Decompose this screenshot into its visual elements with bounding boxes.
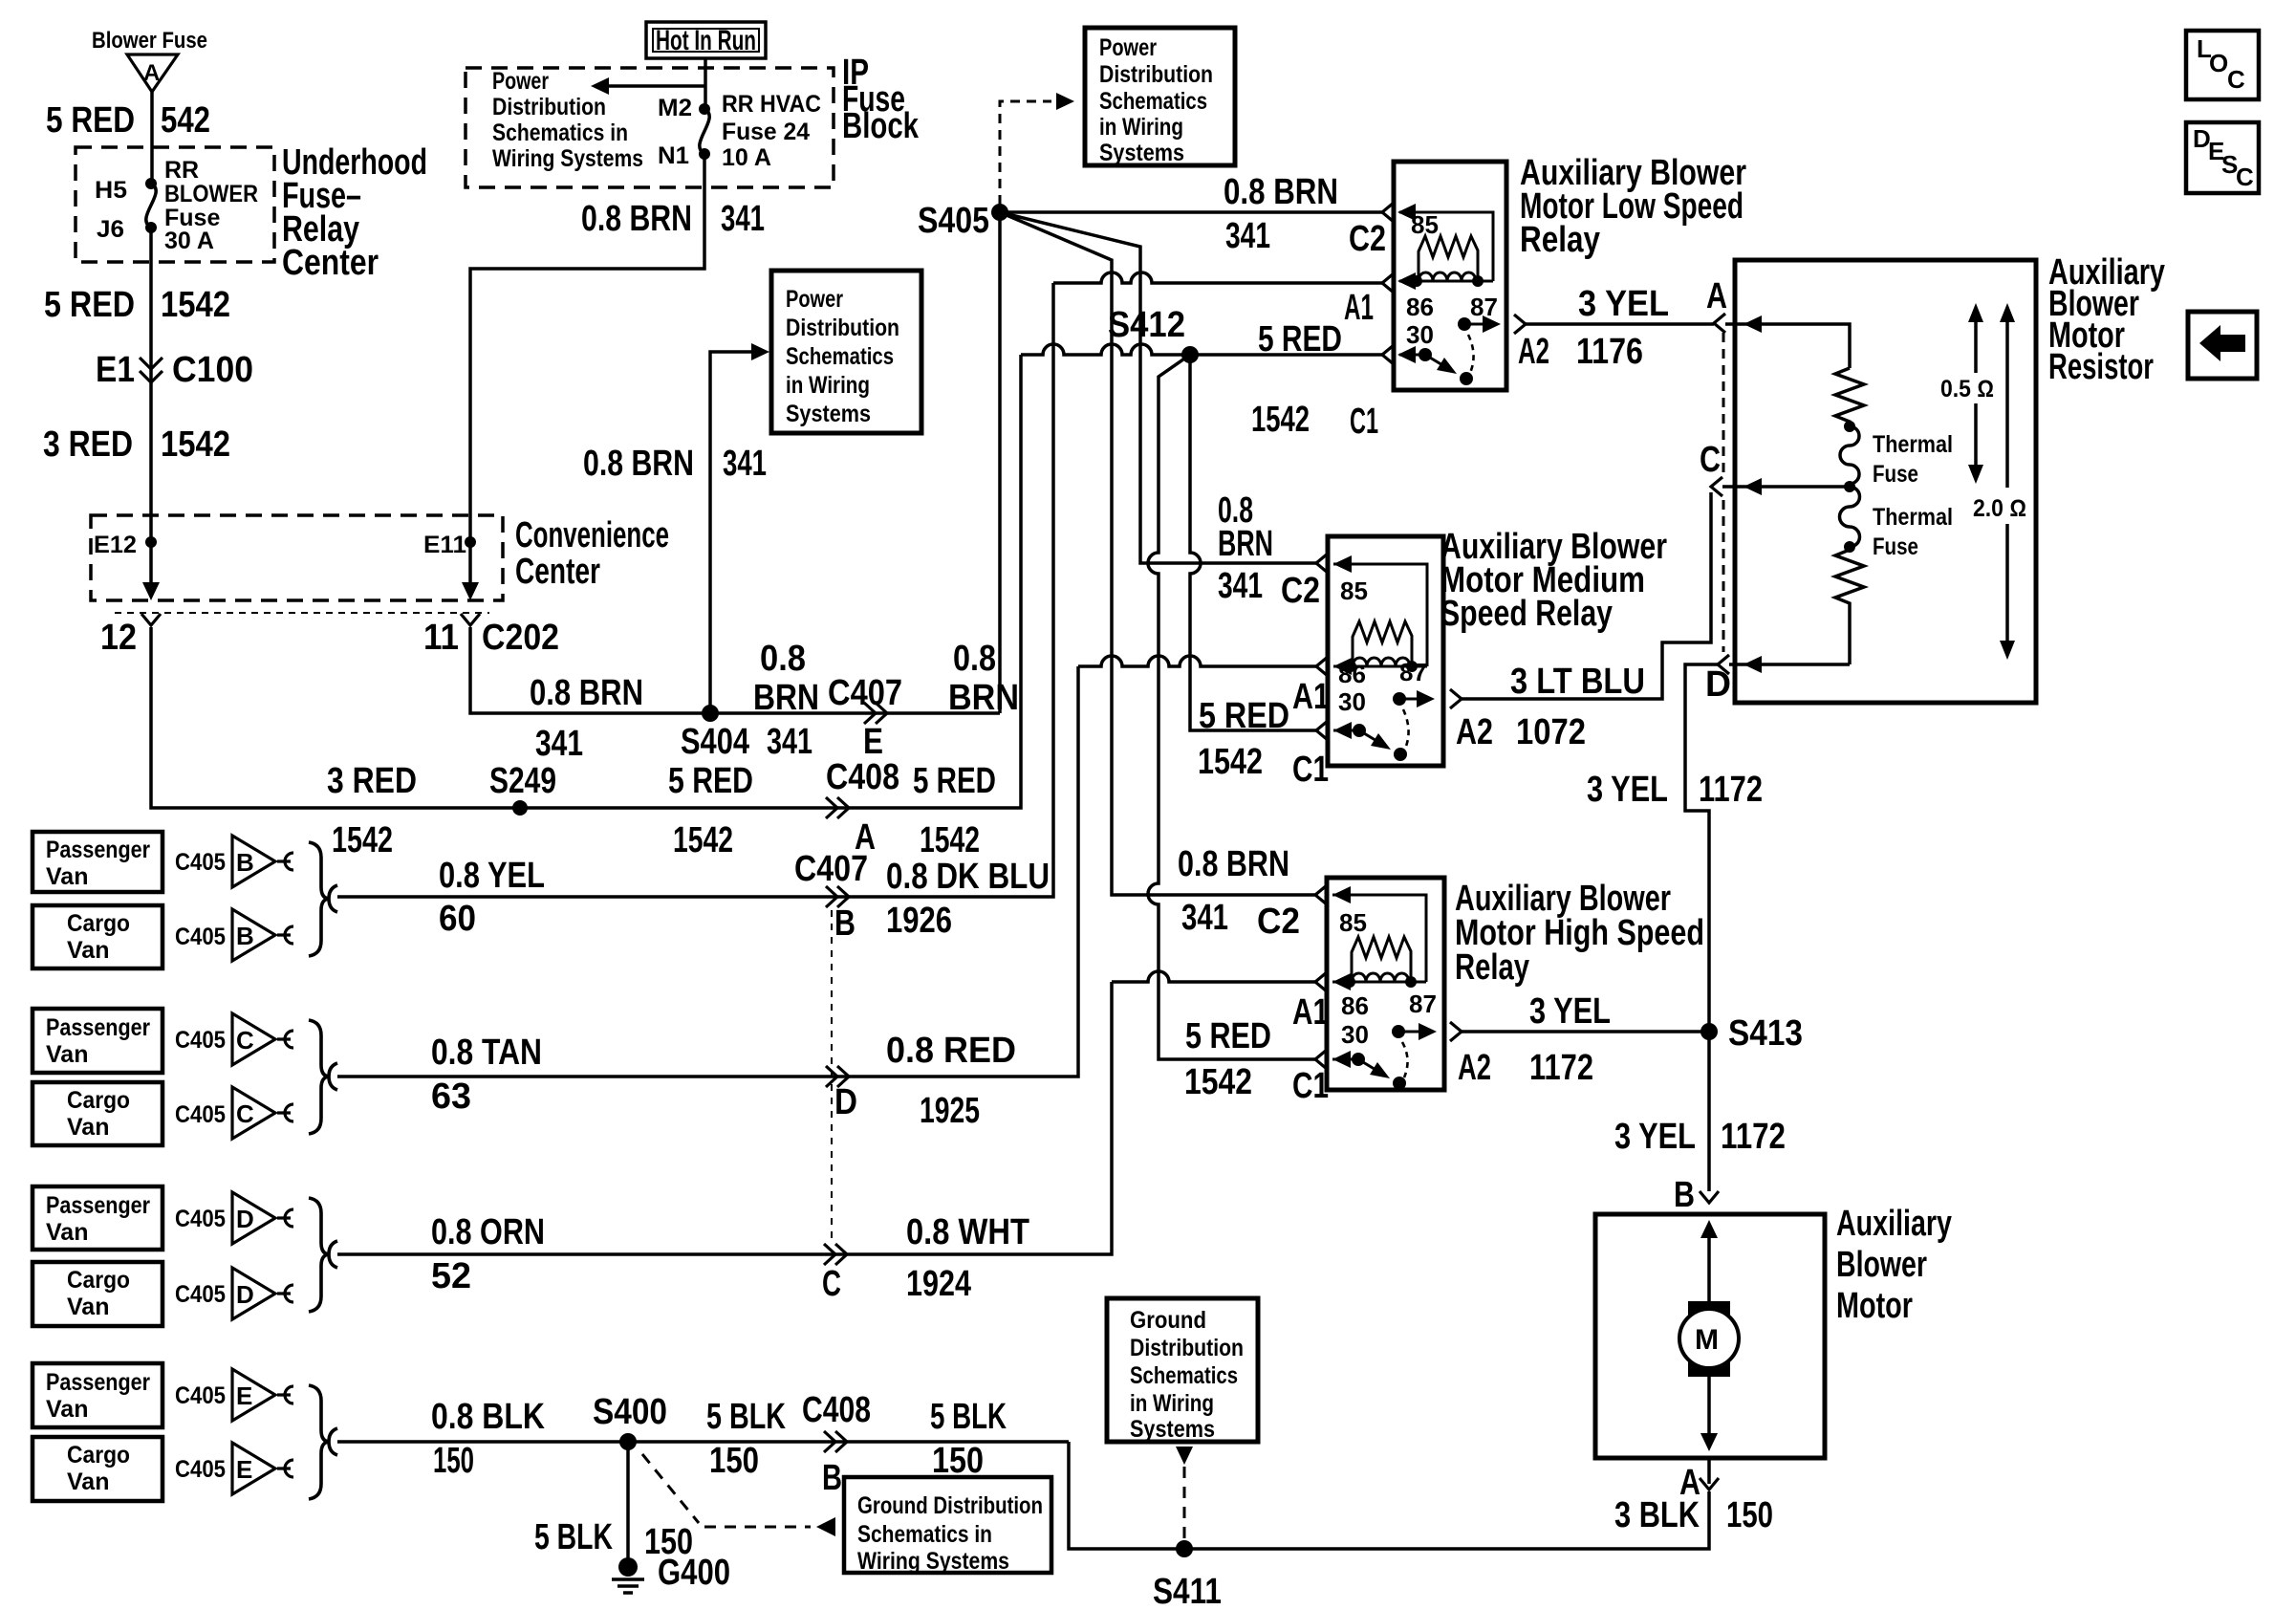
svg-text:Systems: Systems — [1130, 1416, 1215, 1443]
svg-text:in Wiring: in Wiring — [1099, 114, 1183, 141]
svg-text:C: C — [2227, 65, 2245, 94]
svg-text:S404: S404 — [681, 722, 749, 762]
svg-text:1542: 1542 — [1184, 1062, 1252, 1102]
svg-text:BRN: BRN — [948, 678, 1019, 718]
svg-text:Systems: Systems — [786, 401, 871, 427]
svg-text:C405: C405 — [175, 1101, 226, 1128]
svg-text:D: D — [236, 1280, 254, 1309]
svg-text:C: C — [822, 1264, 841, 1304]
svg-text:Distribution: Distribution — [786, 315, 899, 341]
svg-text:341: 341 — [721, 199, 765, 239]
svg-text:C405: C405 — [175, 1382, 226, 1409]
svg-text:Convenience: Convenience — [515, 515, 669, 555]
svg-text:542: 542 — [161, 100, 210, 141]
svg-text:Ground Distribution: Ground Distribution — [857, 1492, 1043, 1519]
svg-text:B: B — [822, 1458, 842, 1498]
svg-text:1542: 1542 — [1198, 742, 1263, 782]
svg-text:0.8 BRN: 0.8 BRN — [583, 444, 694, 484]
svg-text:341: 341 — [1181, 898, 1228, 938]
svg-text:Van: Van — [67, 937, 109, 964]
svg-text:0.5 Ω: 0.5 Ω — [1940, 376, 1994, 402]
svg-text:Van: Van — [67, 1294, 109, 1320]
svg-text:5 RED: 5 RED — [44, 285, 135, 325]
svg-text:341: 341 — [1225, 216, 1270, 256]
svg-text:1926: 1926 — [886, 901, 952, 941]
svg-text:30: 30 — [1341, 1020, 1369, 1049]
svg-text:0.8 DK BLU: 0.8 DK BLU — [886, 857, 1050, 897]
svg-text:Distribution: Distribution — [1130, 1335, 1244, 1361]
svg-text:E: E — [863, 722, 883, 762]
svg-text:B: B — [1674, 1175, 1695, 1215]
svg-text:87: 87 — [1409, 990, 1437, 1018]
svg-text:3 YEL: 3 YEL — [1529, 991, 1611, 1032]
svg-text:RR HVAC: RR HVAC — [722, 91, 821, 118]
svg-text:87: 87 — [1470, 293, 1498, 321]
svg-text:1542: 1542 — [920, 820, 980, 860]
svg-text:5 RED: 5 RED — [1185, 1016, 1271, 1056]
svg-text:S412: S412 — [1108, 305, 1185, 345]
svg-text:BRN: BRN — [753, 678, 819, 718]
svg-text:Speed Relay: Speed Relay — [1440, 594, 1613, 634]
svg-text:0.8 BRN: 0.8 BRN — [581, 199, 692, 239]
svg-text:1176: 1176 — [1576, 332, 1643, 372]
svg-text:A1: A1 — [1292, 992, 1329, 1033]
svg-text:E12: E12 — [94, 532, 137, 558]
svg-text:D: D — [834, 1082, 857, 1122]
svg-text:3 BLK: 3 BLK — [1614, 1495, 1700, 1535]
svg-text:C1: C1 — [1350, 402, 1378, 442]
svg-text:1172: 1172 — [1721, 1117, 1786, 1157]
svg-text:3 RED: 3 RED — [43, 424, 133, 465]
svg-text:Auxiliary: Auxiliary — [1836, 1204, 1952, 1244]
svg-text:5 BLK: 5 BLK — [534, 1517, 613, 1557]
svg-text:Center: Center — [515, 552, 600, 592]
svg-text:5 RED: 5 RED — [46, 100, 135, 141]
svg-text:Cargo: Cargo — [67, 910, 130, 937]
svg-text:30: 30 — [1338, 687, 1366, 716]
svg-text:3 YEL: 3 YEL — [1587, 770, 1668, 810]
svg-text:Relay: Relay — [1455, 947, 1529, 988]
svg-text:3 YEL: 3 YEL — [1614, 1117, 1696, 1157]
svg-text:63: 63 — [431, 1077, 471, 1117]
svg-text:86: 86 — [1406, 293, 1434, 321]
svg-text:85: 85 — [1411, 210, 1439, 239]
svg-text:Cargo: Cargo — [67, 1267, 130, 1294]
svg-text:1542: 1542 — [161, 285, 230, 325]
svg-text:Systems: Systems — [1099, 140, 1184, 166]
svg-text:C405: C405 — [175, 1456, 226, 1483]
svg-text:Schematics in: Schematics in — [492, 120, 628, 146]
svg-text:E1: E1 — [96, 350, 135, 390]
svg-text:S400: S400 — [593, 1392, 667, 1432]
svg-text:5 RED: 5 RED — [668, 761, 753, 801]
svg-text:0.8 BRN: 0.8 BRN — [1224, 172, 1338, 212]
svg-text:M2: M2 — [658, 95, 692, 121]
svg-text:O: O — [2209, 49, 2228, 77]
svg-text:30: 30 — [1406, 320, 1434, 349]
svg-text:86: 86 — [1338, 660, 1366, 688]
svg-text:C202: C202 — [482, 618, 559, 658]
svg-text:A: A — [143, 60, 160, 86]
svg-text:1924: 1924 — [906, 1264, 971, 1304]
svg-text:Fuse: Fuse — [1873, 533, 1918, 560]
svg-text:Van: Van — [46, 863, 88, 890]
svg-text:A1: A1 — [1292, 677, 1330, 717]
svg-text:341: 341 — [767, 722, 812, 762]
svg-text:E: E — [236, 1455, 252, 1484]
svg-text:C405: C405 — [175, 924, 226, 950]
svg-text:in Wiring: in Wiring — [1130, 1390, 1214, 1417]
svg-text:C100: C100 — [172, 350, 253, 390]
svg-text:5 BLK: 5 BLK — [706, 1397, 786, 1437]
svg-text:in Wiring: in Wiring — [786, 372, 870, 399]
svg-text:1542: 1542 — [332, 820, 393, 860]
svg-text:Resistor: Resistor — [2048, 347, 2154, 387]
svg-text:0.8 WHT: 0.8 WHT — [906, 1212, 1029, 1252]
svg-text:30 A: 30 A — [164, 228, 214, 254]
svg-text:10 A: 10 A — [722, 144, 771, 171]
svg-text:5 RED: 5 RED — [1258, 319, 1342, 359]
svg-text:Block: Block — [842, 106, 920, 146]
svg-text:C405: C405 — [175, 1281, 226, 1308]
svg-text:341: 341 — [723, 444, 767, 484]
svg-text:Cargo: Cargo — [67, 1442, 130, 1469]
svg-text:A2: A2 — [1518, 332, 1549, 372]
svg-text:Wiring Systems: Wiring Systems — [857, 1548, 1009, 1575]
svg-text:0.8: 0.8 — [953, 639, 996, 679]
svg-text:A2: A2 — [1458, 1048, 1491, 1088]
svg-text:Passenger: Passenger — [46, 837, 150, 863]
svg-text:Blower: Blower — [1836, 1245, 1927, 1285]
svg-text:3 YEL: 3 YEL — [1578, 284, 1669, 324]
svg-text:Ground: Ground — [1130, 1307, 1206, 1334]
svg-text:12: 12 — [100, 618, 137, 658]
svg-text:3 RED: 3 RED — [327, 761, 417, 801]
svg-text:Cargo: Cargo — [67, 1087, 130, 1114]
svg-text:3 LT BLU: 3 LT BLU — [1510, 662, 1645, 702]
svg-text:0.8 RED: 0.8 RED — [886, 1031, 1016, 1071]
svg-text:Passenger: Passenger — [46, 1014, 150, 1041]
svg-text:150: 150 — [709, 1441, 759, 1481]
svg-text:Center: Center — [282, 243, 379, 283]
svg-text:Passenger: Passenger — [46, 1192, 150, 1219]
svg-text:Blower Fuse: Blower Fuse — [92, 28, 207, 54]
svg-text:C: C — [236, 1026, 254, 1055]
svg-text:C407: C407 — [828, 673, 902, 713]
svg-text:C405: C405 — [175, 1027, 226, 1054]
svg-text:5 RED: 5 RED — [1199, 696, 1289, 736]
svg-text:Hot In Run: Hot In Run — [656, 25, 756, 56]
svg-text:C1: C1 — [1292, 750, 1329, 790]
svg-text:B: B — [236, 848, 254, 877]
svg-text:1542: 1542 — [1251, 400, 1310, 440]
svg-text:S411: S411 — [1153, 1572, 1222, 1610]
svg-text:85: 85 — [1339, 908, 1367, 937]
svg-text:2.0 Ω: 2.0 Ω — [1973, 495, 2026, 522]
svg-text:C: C — [1700, 440, 1721, 480]
svg-text:S413: S413 — [1728, 1013, 1803, 1054]
svg-text:C2: C2 — [1281, 571, 1320, 611]
svg-text:Van: Van — [46, 1041, 88, 1068]
svg-text:5 RED: 5 RED — [913, 761, 996, 801]
svg-text:Schematics in: Schematics in — [857, 1521, 992, 1548]
svg-text:E11: E11 — [423, 532, 466, 558]
svg-text:N1: N1 — [658, 142, 689, 169]
svg-text:52: 52 — [431, 1256, 471, 1296]
svg-text:0.8 BLK: 0.8 BLK — [431, 1397, 545, 1437]
svg-text:1072: 1072 — [1516, 712, 1586, 752]
svg-text:0.8 TAN: 0.8 TAN — [431, 1033, 542, 1073]
svg-text:C: C — [236, 1099, 254, 1128]
svg-text:C408: C408 — [802, 1390, 871, 1430]
svg-text:Fuse 24: Fuse 24 — [722, 119, 810, 145]
svg-text:Fuse: Fuse — [1873, 461, 1918, 488]
svg-text:H5: H5 — [95, 177, 127, 204]
svg-text:G400: G400 — [658, 1553, 730, 1593]
svg-text:B: B — [834, 903, 856, 944]
svg-text:150: 150 — [433, 1441, 474, 1481]
svg-text:86: 86 — [1341, 991, 1369, 1020]
svg-text:85: 85 — [1340, 577, 1368, 605]
svg-text:1925: 1925 — [920, 1091, 980, 1131]
svg-text:BRN: BRN — [1218, 524, 1273, 564]
svg-text:Van: Van — [67, 1114, 109, 1141]
svg-text:60: 60 — [439, 899, 476, 939]
svg-text:0.8 BRN: 0.8 BRN — [1178, 844, 1289, 884]
svg-text:C2: C2 — [1349, 219, 1386, 259]
svg-text:D: D — [236, 1205, 254, 1233]
svg-text:0.8 BRN: 0.8 BRN — [530, 673, 643, 713]
svg-text:1542: 1542 — [161, 424, 230, 465]
svg-text:Passenger: Passenger — [46, 1369, 150, 1396]
svg-text:1542: 1542 — [673, 820, 733, 860]
svg-text:Thermal: Thermal — [1873, 431, 1953, 458]
svg-text:C: C — [2236, 163, 2254, 191]
svg-text:Schematics: Schematics — [1099, 88, 1207, 115]
svg-text:S405: S405 — [918, 201, 989, 241]
svg-text:341: 341 — [535, 724, 583, 764]
svg-text:C408: C408 — [826, 757, 899, 797]
svg-text:1172: 1172 — [1699, 770, 1763, 810]
svg-text:Van: Van — [67, 1469, 109, 1495]
svg-text:C1: C1 — [1292, 1066, 1329, 1106]
svg-text:5 BLK: 5 BLK — [930, 1397, 1007, 1437]
svg-text:Van: Van — [46, 1219, 88, 1246]
svg-text:0.8: 0.8 — [760, 639, 806, 679]
svg-text:A1: A1 — [1344, 288, 1374, 328]
svg-text:S249: S249 — [489, 761, 556, 801]
svg-text:11: 11 — [423, 618, 459, 658]
svg-text:C2: C2 — [1257, 902, 1300, 942]
svg-text:Wiring Systems: Wiring Systems — [492, 145, 643, 172]
svg-text:A2: A2 — [1456, 712, 1493, 752]
svg-text:BLOWER: BLOWER — [164, 181, 258, 207]
svg-text:B: B — [236, 922, 254, 950]
svg-text:RR: RR — [164, 157, 199, 184]
svg-text:150: 150 — [1726, 1495, 1773, 1535]
svg-text:Power: Power — [1099, 34, 1157, 61]
svg-text:C405: C405 — [175, 849, 226, 876]
svg-text:Schematics: Schematics — [786, 343, 894, 370]
svg-text:D: D — [1705, 664, 1731, 705]
svg-text:Power: Power — [786, 286, 843, 313]
svg-text:E: E — [236, 1382, 252, 1410]
svg-text:87: 87 — [1399, 658, 1427, 686]
svg-text:150: 150 — [932, 1441, 984, 1481]
svg-text:Distribution: Distribution — [492, 94, 606, 120]
svg-text:J6: J6 — [97, 216, 124, 243]
svg-text:Schematics: Schematics — [1130, 1362, 1238, 1389]
svg-text:0.8 ORN: 0.8 ORN — [431, 1212, 545, 1252]
svg-text:C405: C405 — [175, 1206, 226, 1232]
svg-text:Power: Power — [492, 68, 549, 95]
svg-text:Relay: Relay — [1520, 220, 1600, 260]
svg-text:Motor: Motor — [1836, 1286, 1913, 1326]
svg-text:C407: C407 — [794, 849, 868, 889]
svg-text:A: A — [1706, 276, 1727, 316]
svg-text:1172: 1172 — [1529, 1048, 1593, 1088]
svg-text:0.8 YEL: 0.8 YEL — [439, 856, 545, 896]
svg-text:Distribution: Distribution — [1099, 61, 1213, 88]
svg-text:341: 341 — [1218, 566, 1263, 606]
svg-text:Thermal: Thermal — [1873, 504, 1953, 531]
svg-text:M: M — [1695, 1324, 1719, 1356]
svg-text:Van: Van — [46, 1396, 88, 1423]
